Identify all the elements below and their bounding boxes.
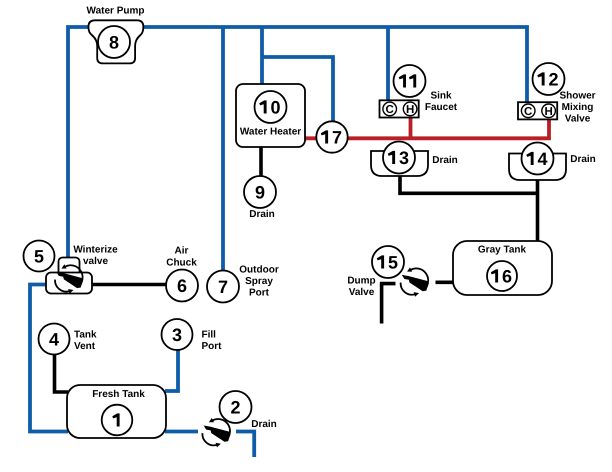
shower C port (521, 104, 535, 118)
svg-text:Gray Tank: Gray Tank (478, 245, 527, 256)
wire drain: winterize valve to air chuck (90, 283, 167, 287)
svg-text:4: 4 (49, 330, 59, 350)
shower circle 12 (533, 63, 565, 95)
shower H port (542, 104, 556, 118)
wire drain: dump valve outlet (382, 284, 396, 324)
svg-text:9: 9 (255, 183, 265, 203)
sink faucet F11 C/H box (380, 100, 419, 117)
water heater U10 box (236, 84, 305, 147)
svg-text:Tank: Tank (74, 330, 97, 341)
drain 14 tub (509, 154, 566, 181)
wire cold: fill port to fresh tank (165, 350, 178, 391)
wire cold: drain valve 2 outlet (236, 432, 254, 458)
winterize valve V5 top fitting (59, 258, 80, 278)
svg-text:Port: Port (202, 341, 223, 352)
svg-text:Sink: Sink (430, 91, 452, 102)
svg-text:Water Heater: Water Heater (240, 127, 301, 138)
wire cold: outdoor spray port drop (221, 27, 225, 271)
sink faucet circle 11 (394, 65, 426, 97)
svg-text:2: 2 (230, 398, 240, 418)
svg-text:3: 3 (399, 148, 409, 168)
drain 13 tub (371, 151, 428, 176)
svg-text:5: 5 (388, 253, 398, 273)
drain circle 9 (244, 176, 276, 208)
svg-text:Drain: Drain (251, 419, 277, 430)
svg-text:H: H (544, 106, 552, 118)
svg-text:Spray: Spray (245, 276, 273, 287)
wire cold: branch to valve 17 (262, 57, 333, 123)
water pump P8 body (89, 20, 144, 63)
svg-text:8: 8 (109, 33, 119, 53)
svg-text:Outdoor: Outdoor (239, 265, 279, 276)
sink faucet C port (383, 102, 397, 116)
svg-text:6: 6 (177, 276, 187, 296)
svg-text:Shower: Shower (559, 91, 595, 102)
svg-text:7: 7 (332, 128, 342, 148)
svg-text:Fill: Fill (202, 330, 217, 341)
svg-text:Mixing: Mixing (562, 102, 594, 113)
tank vent circle 4 (39, 324, 70, 355)
winterize valve rotary symbol (55, 264, 83, 293)
drain circle 14 (522, 143, 554, 175)
valve circle 17 (316, 121, 347, 152)
svg-text:5: 5 (34, 247, 44, 267)
svg-text:Valve: Valve (349, 287, 375, 298)
wire hot: sink faucet riser (409, 116, 413, 138)
fresh tank circle 1 (102, 405, 133, 436)
svg-text:Dump: Dump (347, 276, 375, 287)
svg-text:2: 2 (548, 70, 558, 90)
wire cold: winterize valve to fresh tank (30, 285, 68, 432)
svg-text:C: C (386, 104, 394, 116)
svg-text:6: 6 (502, 267, 512, 287)
wire drain: shower drain 14 to gray tank (536, 180, 540, 242)
gray tank T16 box (453, 241, 552, 295)
winterize valve V5 body (46, 273, 92, 294)
svg-text:valve: valve (83, 256, 108, 267)
svg-text:0: 0 (270, 98, 280, 118)
svg-text:C: C (524, 106, 532, 118)
wire drain: sink drain 13 to gray tank (400, 176, 538, 193)
wire cold: water heater drop (260, 27, 264, 86)
svg-text:Water Pump: Water Pump (87, 6, 145, 17)
svg-text:Fresh Tank: Fresh Tank (92, 389, 145, 400)
drain valve 2 rotary symbol (202, 418, 230, 447)
svg-text:Drain: Drain (570, 154, 596, 165)
shower mixing valve F12 C/H box (518, 102, 557, 119)
svg-text:4: 4 (537, 149, 547, 169)
wire drain: tank vent to fresh tank (55, 354, 69, 392)
outdoor spray port circle 7 (207, 271, 239, 303)
gray tank circle 16 (487, 261, 517, 291)
dump valve circle 15 (372, 246, 404, 278)
svg-text:Faucet: Faucet (425, 102, 458, 113)
dump valve rotary symbol (401, 267, 429, 296)
svg-text:Drain: Drain (249, 209, 275, 220)
wire drain: water heater drain 9 (259, 147, 263, 178)
winterize valve circle 5 (24, 241, 55, 272)
svg-text:Vent: Vent (74, 341, 96, 352)
wire drain: gray tank to dump valve (436, 280, 455, 284)
wire cold: sink faucet drop (386, 27, 390, 102)
water heater circle 10 (255, 91, 287, 123)
wire hot: water heater to fixtures (305, 119, 549, 138)
water pump circle 8 (98, 26, 130, 58)
svg-text:Port: Port (249, 288, 270, 299)
svg-text:H: H (406, 104, 414, 116)
air chuck circle 6 (166, 270, 198, 302)
svg-text:7: 7 (218, 277, 228, 297)
wire cold: fresh tank to drain valve 2 (165, 430, 198, 434)
drain valve circle 2 (220, 391, 252, 423)
fill port circle 3 (162, 319, 193, 350)
sink faucet H port (403, 102, 417, 116)
fresh tank T1 box (67, 385, 166, 438)
svg-text:Chuck: Chuck (166, 258, 197, 269)
svg-text:Air: Air (175, 246, 189, 257)
svg-text:Valve: Valve (565, 114, 591, 125)
wire cold main: pump loop top (68, 27, 527, 260)
svg-text:Drain: Drain (432, 155, 458, 166)
svg-text:Winterize: Winterize (73, 245, 118, 256)
drain circle 13 (383, 142, 415, 174)
svg-text:3: 3 (172, 325, 182, 345)
